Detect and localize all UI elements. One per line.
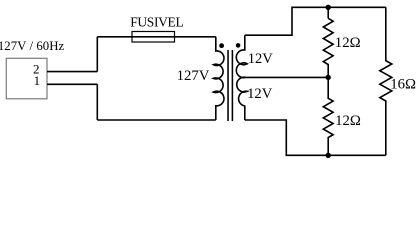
transformer secondary winding lower 12V: [237, 77, 248, 120]
resistor R2 12ohm: [323, 77, 333, 155]
fuse F1: [132, 32, 175, 43]
wire top line to transformer: [97, 36, 216, 38]
junction node bottom: [326, 153, 331, 158]
resistor R1 12ohm top stub: [327, 7, 329, 18]
svg-text:12V: 12V: [247, 86, 273, 102]
junction node center tap: [326, 75, 331, 80]
transformer core: [228, 50, 232, 121]
transformer T1 primary winding: [213, 37, 224, 120]
svg-text:127V: 127V: [177, 68, 210, 84]
wire center tap: [246, 76, 328, 78]
wire secondary top to top rail: [245, 7, 386, 35]
junction node top: [326, 5, 331, 10]
svg-text:16Ω: 16Ω: [390, 77, 416, 93]
svg-text:12Ω: 12Ω: [335, 113, 361, 129]
wire pin2 to node: [47, 71, 97, 73]
phase dot secondary: [236, 43, 241, 48]
svg-text:1: 1: [34, 73, 41, 88]
wire bottom line to transformer: [97, 119, 216, 121]
resistor R1 12ohm: [323, 18, 333, 77]
svg-text:12V: 12V: [248, 51, 274, 67]
wire vertical down to bottom line: [96, 84, 98, 120]
svg-text:127V / 60Hz: 127V / 60Hz: [0, 39, 65, 53]
resistor R3 16ohm with rails: [380, 7, 392, 155]
transformer secondary winding upper 12V: [236, 35, 247, 77]
svg-text:12Ω: 12Ω: [335, 35, 361, 51]
phase dot primary: [219, 43, 224, 48]
wire secondary bottom jog: [245, 120, 386, 155]
wire pin1 to node: [47, 83, 97, 85]
wire vertical up to fuse line: [96, 37, 98, 72]
connector J1 box: [6, 58, 47, 99]
svg-text:FUSIVEL: FUSIVEL: [130, 15, 184, 30]
